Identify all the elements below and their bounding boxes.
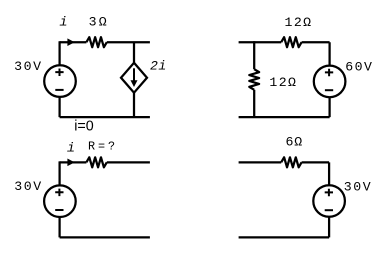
wire BL top-right segment [107,161,150,163]
svg-text:R=?: R=? [88,140,118,154]
svg-text:6Ω: 6Ω [286,135,303,150]
wire BL left branch [58,161,60,237]
minus sign V1 [55,89,63,91]
voltage source V3 30V (BL) [44,185,76,217]
plus sign V2 [325,69,333,77]
wire BR top-right segment [302,161,330,163]
wire BR right branch [328,162,330,237]
svg-text:i: i [59,15,67,30]
wire TL bottom (node i=0) [60,116,150,118]
resistor 12ohm horizontal (TR) [281,37,301,47]
svg-text:3Ω: 3Ω [89,14,109,29]
dependent current source 2i (diamond) [121,63,147,93]
svg-text:i: i [67,140,75,155]
wire TL top-right segment (resistor to open end) [107,41,150,43]
resistor 12ohm vertical (TR) [249,69,259,90]
current arrow i (BL) [67,159,74,167]
current arrow i (TL) [67,38,74,46]
svg-text:12Ω: 12Ω [269,75,297,90]
wire BL top-left segment [60,161,87,163]
svg-text:30V: 30V [344,180,373,195]
svg-text:2i: 2i [150,59,167,74]
voltage source V1 30V (TL) [44,65,76,97]
dependent source arrow (down) [133,68,135,82]
wire TL dependent-source branch [133,42,135,117]
wire TR bottom [239,116,330,118]
plus sign V1 [55,69,63,77]
wire TR right branch [328,42,330,117]
resistor 6ohm (BR) [281,157,301,167]
svg-text:i=0: i=0 [74,119,94,135]
wire BR top-left stub [239,161,282,163]
svg-text:12Ω: 12Ω [285,15,313,30]
plus sign V4 [325,189,333,197]
voltage source V2 60V (TR) [314,66,346,98]
plus sign V3 [55,189,63,197]
svg-text:60V: 60V [345,59,373,74]
svg-text:30V: 30V [14,179,43,194]
svg-text:30V: 30V [14,59,43,74]
resistor R=? (BL) [86,157,106,167]
wire TL left branch [58,41,60,117]
voltage source V4 30V (BR) [313,185,345,217]
minus sign V2 [325,89,333,91]
wire BR bottom [239,236,330,238]
minus sign V3 [55,209,63,211]
resistor 3ohm (TL) [86,37,106,47]
minus sign V4 [325,209,333,211]
wire TL top-left segment (source to resistor) [60,41,87,43]
wire TR top-left stub [239,41,282,43]
wire TR left branch lower [253,90,255,117]
wire TR left branch upper [253,41,255,69]
wire TR top-right segment [302,41,330,43]
wire BL bottom [60,236,150,238]
